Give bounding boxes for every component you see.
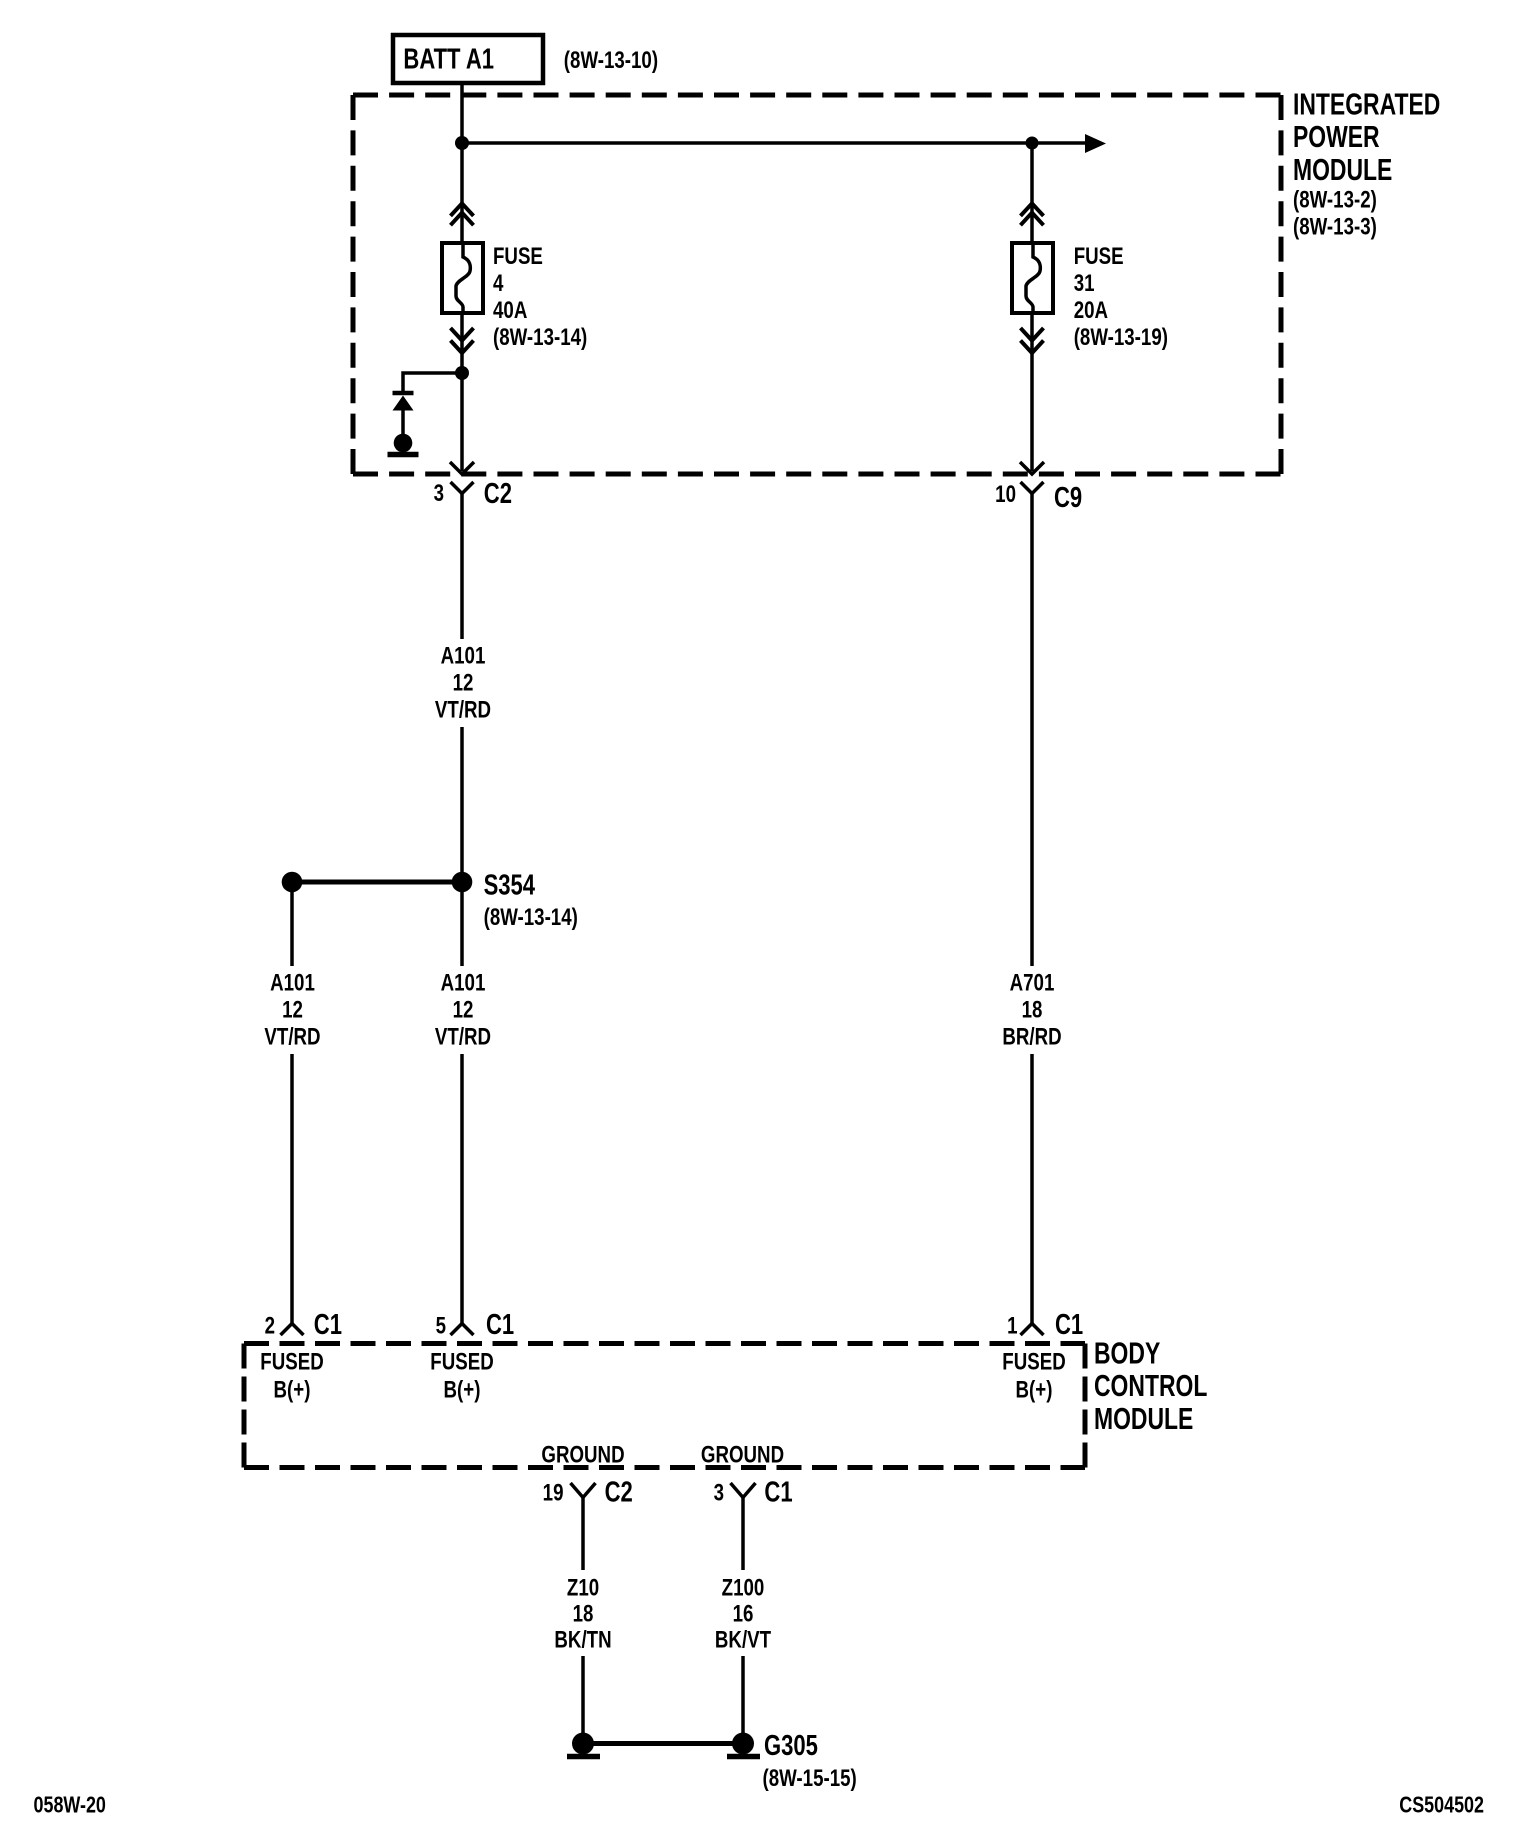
svg-text:5: 5 <box>436 1312 446 1339</box>
svg-text:18: 18 <box>573 1600 594 1627</box>
wire label A101 12 VT/RD upper <box>435 642 491 723</box>
svg-text:10: 10 <box>995 481 1016 508</box>
fuse 4 <box>442 243 483 313</box>
svg-text:C1: C1 <box>486 1309 514 1341</box>
svg-text:BK/VT: BK/VT <box>715 1626 771 1653</box>
svg-text:FUSED: FUSED <box>430 1348 493 1375</box>
wire to ground G305 left <box>581 1656 585 1740</box>
svg-text:(8W-13-3): (8W-13-3) <box>1293 213 1377 240</box>
svg-text:POWER: POWER <box>1293 119 1380 154</box>
svg-text:VT/RD: VT/RD <box>435 1023 491 1050</box>
arrow head at IPM exit right <box>1020 462 1044 474</box>
svg-text:12: 12 <box>453 996 474 1023</box>
svg-text:FUSE: FUSE <box>493 243 543 270</box>
connector C1 pin 3 (BCM bottom) <box>714 1477 793 1509</box>
svg-text:4: 4 <box>493 270 503 297</box>
svg-text:20A: 20A <box>1074 297 1108 324</box>
fuse 31 <box>1012 243 1053 313</box>
svg-text:C2: C2 <box>605 1477 633 1509</box>
svg-text:S354: S354 <box>484 870 536 902</box>
svg-text:C2: C2 <box>484 478 512 510</box>
svg-text:VT/RD: VT/RD <box>264 1023 320 1050</box>
module title INTEGRATED POWER MODULE <box>1293 86 1440 240</box>
connector C1 pin 1 (BCM right) <box>1007 1309 1083 1341</box>
svg-text:(8W-13-2): (8W-13-2) <box>1293 187 1377 214</box>
splice S354 <box>282 870 578 931</box>
ground G305 <box>567 1730 857 1791</box>
svg-text:INTEGRATED: INTEGRATED <box>1293 86 1440 121</box>
svg-text:3: 3 <box>714 1479 724 1506</box>
svg-text:G305: G305 <box>764 1730 818 1762</box>
node: splice junction at top of IPM <box>455 136 469 150</box>
svg-text:C9: C9 <box>1054 482 1082 514</box>
wire into splice S354 <box>460 727 464 882</box>
connector C1 pin 2 (BCM) <box>265 1309 342 1341</box>
svg-text:Z100: Z100 <box>722 1574 765 1601</box>
svg-text:(8W-13-10): (8W-13-10) <box>564 47 658 74</box>
svg-text:3: 3 <box>434 480 444 507</box>
wire fuse 31 to connector C9 <box>1030 313 1034 471</box>
wire label Z10 18 BK/TN <box>554 1574 611 1653</box>
connector C2 pin 19 (BCM bottom) <box>543 1477 633 1509</box>
svg-text:BR/RD: BR/RD <box>1002 1023 1061 1050</box>
svg-text:GROUND: GROUND <box>541 1441 624 1468</box>
wire to BCM pin 1 <box>1030 1054 1034 1323</box>
wire from BATT A1 down into IPM <box>460 84 464 243</box>
wire S354 left branch down <box>290 882 294 966</box>
wire to BCM pin 5 <box>460 1054 464 1323</box>
wire fuse 4 to connector C2 <box>460 313 464 471</box>
svg-text:CONTROL: CONTROL <box>1094 1368 1207 1403</box>
svg-text:(8W-15-15): (8W-15-15) <box>763 1765 857 1792</box>
svg-text:B(+): B(+) <box>274 1376 311 1403</box>
svg-text:40A: 40A <box>493 297 527 324</box>
wire to BCM pin 2 <box>290 1054 294 1323</box>
wire branch to diode <box>403 373 462 391</box>
svg-text:BODY: BODY <box>1094 1335 1160 1370</box>
wire label A101 12 VT/RD left <box>264 969 320 1050</box>
integrated power module dashed box <box>353 95 1281 474</box>
svg-text:2: 2 <box>265 1312 275 1339</box>
svg-text:1: 1 <box>1007 1312 1017 1339</box>
svg-text:16: 16 <box>733 1600 754 1627</box>
svg-text:12: 12 <box>453 669 474 696</box>
body control module dashed box <box>244 1344 1085 1468</box>
arrow head on horizontal feed <box>1085 134 1106 153</box>
battery feed box BATT A1 <box>393 35 543 83</box>
wire label A701 18 BR/RD <box>1002 969 1061 1050</box>
wire label Z100 16 BK/VT <box>715 1574 771 1653</box>
wire pin 3 down <box>741 1497 745 1570</box>
wire C2 to S354 upper <box>460 494 464 640</box>
wire C9 down <box>1030 494 1034 967</box>
connector C1 pin 5 (BCM) <box>436 1309 515 1341</box>
node: junction to clamp diode <box>455 366 469 380</box>
svg-text:A101: A101 <box>441 642 486 669</box>
chevron pair below fuse 4 <box>451 328 474 353</box>
svg-text:058W-20: 058W-20 <box>34 1792 106 1818</box>
svg-text:A701: A701 <box>1010 969 1055 996</box>
svg-text:VT/RD: VT/RD <box>435 696 491 723</box>
svg-text:FUSED: FUSED <box>1002 1348 1065 1375</box>
wire label A101 12 VT/RD center <box>435 969 491 1050</box>
svg-text:C1: C1 <box>764 1477 792 1509</box>
fuse 4 label <box>493 243 587 351</box>
svg-text:BK/TN: BK/TN <box>554 1626 611 1653</box>
svg-text:MODULE: MODULE <box>1293 152 1392 187</box>
wire to ground G305 right <box>741 1656 745 1740</box>
svg-text:BATT A1: BATT A1 <box>403 44 494 76</box>
module title BODY CONTROL MODULE <box>1094 1335 1207 1436</box>
svg-text:(8W-13-14): (8W-13-14) <box>493 324 587 351</box>
wire S354 center branch down <box>460 882 464 966</box>
svg-text:Z10: Z10 <box>567 1574 599 1601</box>
svg-text:C1: C1 <box>1055 1309 1083 1341</box>
diode (cathode bar and anode triangle) <box>393 393 414 435</box>
svg-text:C1: C1 <box>314 1309 342 1341</box>
svg-text:18: 18 <box>1022 996 1043 1023</box>
chevron pair above fuse 31 <box>1021 203 1044 225</box>
pin function labels FUSED B(+) <box>260 1348 1065 1403</box>
svg-text:FUSED: FUSED <box>260 1348 323 1375</box>
svg-text:A101: A101 <box>270 969 315 996</box>
svg-text:12: 12 <box>282 996 303 1023</box>
svg-text:CS504502: CS504502 <box>1399 1792 1484 1818</box>
fuse 31 label <box>1074 243 1168 351</box>
connector C9 pin 10 <box>995 481 1082 514</box>
chevron pair below fuse 31 <box>1021 328 1044 353</box>
arrow head at IPM exit left <box>450 462 474 474</box>
svg-text:GROUND: GROUND <box>701 1441 784 1468</box>
chevron pair above fuse 4 <box>451 203 474 225</box>
svg-text:A101: A101 <box>441 969 486 996</box>
svg-text:19: 19 <box>543 1479 564 1506</box>
ground symbol inside IPM <box>388 434 419 455</box>
pin function labels GROUND <box>541 1441 784 1468</box>
wire: horizontal feed to fuse 31 <box>462 141 1090 145</box>
wire down to fuse 31 <box>1030 143 1034 243</box>
svg-text:(8W-13-14): (8W-13-14) <box>484 904 578 931</box>
svg-text:31: 31 <box>1074 270 1095 297</box>
svg-text:MODULE: MODULE <box>1094 1401 1193 1436</box>
connector C2 pin 3 <box>434 478 512 510</box>
wire pin 19 down <box>581 1497 585 1570</box>
svg-text:B(+): B(+) <box>444 1376 481 1403</box>
node: junction above fuse 31 <box>1026 137 1039 150</box>
svg-text:(8W-13-19): (8W-13-19) <box>1074 324 1168 351</box>
svg-text:FUSE: FUSE <box>1074 243 1124 270</box>
svg-text:B(+): B(+) <box>1016 1376 1053 1403</box>
